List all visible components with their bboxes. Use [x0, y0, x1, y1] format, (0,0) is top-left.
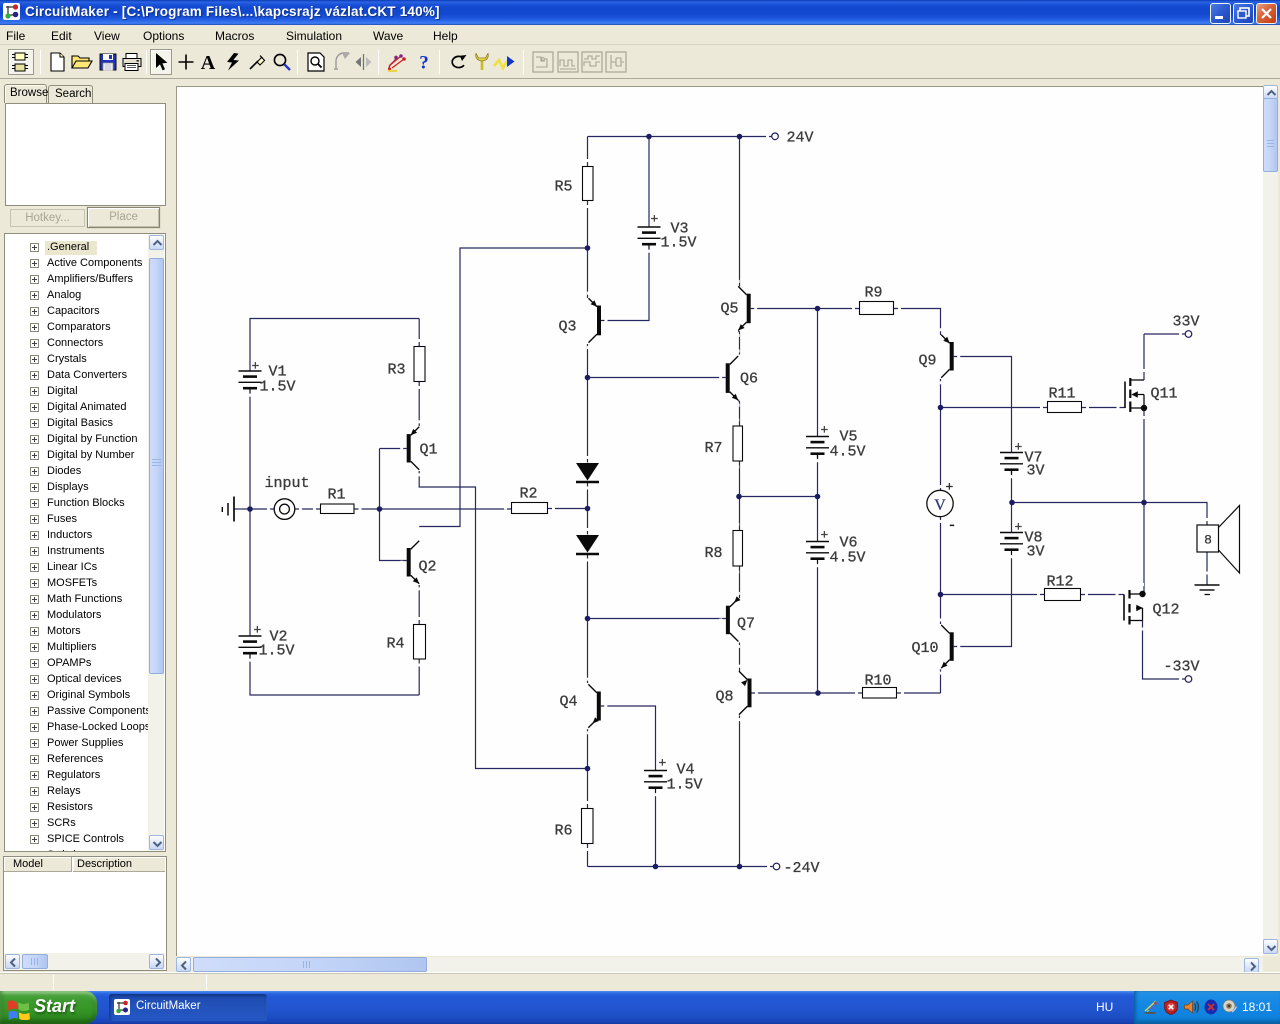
model/description panel [3, 856, 167, 971]
svg-text:+: + [252, 359, 260, 374]
wire R6 bottom lead [587, 844, 589, 867]
junction diode midpoint [585, 506, 591, 512]
wire R4 bottom lead [418, 659, 420, 695]
wire Q6 emitter to R7 [738, 400, 739, 426]
resistor R10 [855, 673, 904, 699]
wire R7 bottom lead [739, 461, 741, 497]
battery V2 [239, 623, 295, 662]
wire feedback to Q2 collector [419, 248, 587, 527]
wire V2 top lead [249, 509, 251, 636]
svg-text:Q3: Q3 [559, 319, 577, 336]
battery V4 [644, 756, 703, 797]
svg-text:R5: R5 [555, 179, 573, 196]
resistor R12 [1037, 574, 1088, 601]
battery V5 [806, 423, 866, 463]
wire V8 top lead [1011, 503, 1013, 533]
wire V4 bottom lead [655, 792, 657, 867]
junction V3 at rail [646, 134, 652, 140]
terminal -33V [1164, 659, 1200, 683]
wire R10 right lead [897, 692, 941, 694]
svg-text:Q12: Q12 [1153, 602, 1180, 619]
wire input junction to R2 [380, 508, 512, 510]
svg-text:Q8: Q8 [716, 689, 734, 706]
junction node A (Q3 collector) [585, 375, 591, 381]
wire node C to R12 [941, 594, 1045, 596]
wire R3 top lead [418, 319, 420, 347]
wire V3 top lead [648, 137, 650, 228]
wire Q4 base to V4 [601, 706, 656, 771]
svg-text:R12: R12 [1047, 574, 1074, 591]
battery V1 [239, 359, 296, 397]
wire Q5 emitter to Q6 [738, 331, 739, 355]
svg-text:-: - [948, 518, 957, 535]
svg-text:V: V [934, 497, 946, 514]
toolbar [0, 46, 1280, 79]
svg-text:R9: R9 [865, 285, 883, 302]
wire 33V lead [1144, 333, 1185, 335]
svg-text:?: ? [419, 53, 429, 73]
ground (speaker) [1195, 585, 1220, 595]
battery V7 [1000, 440, 1045, 480]
junction Q5 column at rail [737, 134, 743, 140]
svg-text:R8: R8 [705, 545, 723, 562]
wire Q5 base to R9 [751, 308, 860, 310]
resistor R3 [388, 339, 426, 389]
svg-text:33V: 33V [1173, 314, 1200, 331]
terminal 24V [766, 130, 814, 147]
junction V5-V6 node [815, 494, 821, 500]
wire node B to R11 [941, 407, 1048, 409]
transistor Q10 [912, 619, 961, 675]
wire V8 to Q10 base [954, 554, 1012, 647]
wire Q5 collector lead [739, 137, 741, 287]
battery V3 [638, 212, 697, 253]
svg-text:3V: 3V [1027, 463, 1045, 480]
svg-text:Q10: Q10 [912, 640, 939, 657]
resistor R7 [705, 419, 743, 469]
wire Q9 emitter to node [940, 379, 942, 408]
wire R11 to Q11 gate [1082, 407, 1126, 409]
svg-text:1.5V: 1.5V [661, 235, 697, 252]
svg-text:R10: R10 [865, 673, 892, 690]
svg-text:A: A [201, 53, 216, 71]
resistor R5 [555, 159, 594, 208]
svg-text:R3: R3 [388, 362, 406, 379]
transistor Q9 [919, 328, 961, 384]
wire speaker ground lead [1206, 552, 1208, 585]
wire V3 to Q3 base [601, 249, 649, 321]
junction speaker node [1141, 500, 1147, 506]
transistor Q3 [559, 292, 608, 349]
transistor Q8 [716, 665, 759, 721]
svg-text:-33V: -33V [1164, 659, 1200, 676]
svg-text:Q4: Q4 [560, 694, 578, 711]
wire Q8 base to R10 [752, 692, 863, 694]
menu bar [0, 25, 1280, 45]
junction ground node [247, 506, 253, 512]
svg-text:Q1: Q1 [420, 442, 438, 459]
speaker SP1 [1197, 506, 1240, 575]
svg-text:R11: R11 [1049, 386, 1076, 403]
wire D1 anode lead [587, 378, 589, 463]
svg-text:+: + [651, 212, 659, 227]
svg-text:R1: R1 [328, 487, 346, 504]
junction V4 at rail [653, 864, 659, 870]
svg-text:Q2: Q2 [419, 559, 437, 576]
wire Q4 collector lead [587, 619, 589, 684]
terminal 33V [1173, 314, 1200, 338]
svg-text:1.5V: 1.5V [260, 379, 296, 396]
wire speaker net [1012, 503, 1208, 526]
diode D2 [576, 528, 599, 562]
resistor R11 [1040, 386, 1089, 413]
svg-text:+: + [254, 623, 262, 638]
wire V2 bottom loop [250, 658, 419, 696]
wire R8 top lead [739, 497, 741, 531]
wire D1 to D2 [587, 483, 589, 535]
voltmeter V [927, 480, 957, 535]
wire Q12 drain to -33V [1143, 621, 1186, 680]
wire Q4 emitter lead [587, 729, 589, 768]
wire Q1 emitter run [419, 471, 587, 769]
svg-text:R7: R7 [705, 440, 723, 457]
transistor Q2 [400, 534, 436, 590]
wire node A to Q6 base [588, 377, 726, 379]
wire Q3 collector lead [587, 344, 589, 378]
wire -24V rail [588, 866, 773, 868]
wire 24V rail [588, 136, 772, 138]
diode D1 [576, 456, 599, 490]
svg-text:Q6: Q6 [740, 371, 758, 388]
wire Q3 emitter lead [587, 248, 589, 298]
wire R9 to Q9 collector [894, 309, 941, 336]
junction Q8 base node [815, 690, 821, 696]
canvas v scrollbar [1263, 85, 1278, 956]
junction Q9-R11 node [938, 405, 944, 411]
tree box [4, 233, 166, 852]
svg-text:4.5V: 4.5V [830, 550, 866, 567]
svg-text:+: + [1015, 520, 1023, 535]
wire speaker node to Q12 source [1143, 503, 1145, 595]
svg-text:-24V: -24V [784, 860, 820, 877]
wire V1 top loop [250, 319, 419, 372]
wire Q1 base wire [380, 449, 407, 510]
wire R5 bottom lead [587, 201, 589, 249]
status bar [0, 972, 1280, 991]
wire V5 to V6 link [817, 454, 819, 542]
wire R5 top lead [587, 137, 589, 167]
preview box [5, 103, 166, 206]
wire R1 to input junction [354, 508, 380, 510]
svg-text:+: + [659, 756, 667, 771]
window title bar [0, 0, 1280, 25]
svg-text:+: + [821, 423, 829, 438]
wire Q2 emitter to R4 [418, 585, 420, 625]
resistor R1 [313, 487, 362, 514]
junction Q10-R12 node [938, 592, 944, 598]
wire Q9 base to V7 [954, 357, 1012, 453]
resistor R9 [852, 285, 901, 315]
junction Q5 base node [815, 306, 821, 312]
wire V1 bottom lead [249, 393, 251, 510]
junction Q7 base node [585, 616, 591, 622]
transistor Q4 [560, 678, 608, 735]
wire Q2 base wire [380, 509, 407, 561]
transistor Q5 [721, 280, 758, 337]
terminal -24V [767, 860, 820, 877]
svg-text:+: + [821, 528, 829, 543]
ground (input) [222, 497, 234, 522]
wire R3 to Q1 collector [418, 382, 420, 426]
transistor Q7 [719, 592, 755, 648]
svg-text:4.5V: 4.5V [830, 444, 866, 461]
svg-text:24V: 24V [787, 130, 814, 147]
svg-text:Q11: Q11 [1151, 386, 1178, 403]
wire V7 bottom lead [1011, 471, 1013, 503]
svg-text:8: 8 [1204, 533, 1212, 548]
tray icons [1143, 999, 1159, 1015]
svg-text:R4: R4 [387, 636, 405, 653]
MOSFET Q11 [1117, 369, 1178, 419]
wire Q10 emitter to R10 wire [940, 669, 942, 693]
svg-text:1.5V: 1.5V [667, 777, 703, 794]
wire Q11 source to speaker node [1143, 408, 1145, 503]
junction R5-feedback node [585, 245, 591, 251]
start button [0, 991, 97, 1024]
model h-scrollbar [4, 953, 165, 970]
svg-text:1.5V: 1.5V [259, 643, 295, 660]
svg-text:Q9: Q9 [919, 353, 937, 370]
resistor R6 [555, 801, 594, 851]
junction input node [377, 506, 383, 512]
svg-text:input: input [265, 475, 310, 492]
wire V5 top lead [817, 309, 819, 437]
left sidebar [0, 80, 171, 972]
MOSFET Q12 [1116, 583, 1180, 631]
taskbar [0, 991, 1280, 1024]
resistor R8 [705, 523, 743, 574]
canvas [171, 80, 1280, 972]
transistor Q6 [719, 350, 758, 407]
canvas h scrollbar [176, 957, 1263, 972]
input connector [265, 475, 310, 519]
wire input node to connector [250, 508, 274, 510]
tabs [4, 84, 47, 103]
battery V8 [1000, 520, 1045, 561]
wire Q8 emitter to rail [739, 716, 741, 867]
junction R7-R8 node [736, 494, 742, 500]
svg-text:3V: 3V [1027, 544, 1045, 561]
wire R6 top lead [587, 769, 589, 809]
svg-text:+: + [946, 480, 954, 495]
svg-text:R2: R2 [520, 486, 538, 503]
hotkey button [10, 209, 85, 227]
junction Q8 column at rail [737, 864, 743, 870]
resistor R4 [387, 617, 426, 667]
wire Q10 collector lead [940, 595, 942, 625]
svg-text:R6: R6 [555, 823, 573, 840]
svg-text:Q5: Q5 [721, 301, 739, 318]
place button [87, 207, 160, 228]
task button [109, 994, 267, 1021]
tray [1134, 991, 1280, 1024]
wire R8 bottom to Q7 collector [739, 566, 741, 598]
wire voltmeter top lead [940, 408, 942, 491]
resistor R2 [504, 486, 555, 514]
svg-text:+: + [1015, 440, 1023, 455]
wire ground to input node [234, 508, 250, 510]
wire D2 cathode lead [587, 555, 589, 619]
junction Q4 emitter node [585, 766, 591, 772]
wire Q7 emitter to Q8 collector [739, 643, 741, 672]
svg-text:Q7: Q7 [737, 616, 755, 633]
battery V6 [806, 528, 866, 568]
wire Q11 drain lead [1143, 334, 1145, 380]
transistor Q1 [400, 420, 437, 476]
wire R7-R8 node to V5-V6 node [739, 496, 818, 498]
wire R12 to Q12 gate [1081, 594, 1125, 596]
wire R2 right lead [548, 508, 588, 510]
wire Q7 base wire [588, 618, 726, 620]
wire connector to R1 [295, 508, 321, 510]
wire V6 bottom lead [817, 563, 819, 693]
junction V7-V8 node [1009, 500, 1015, 506]
wire voltmeter bottom lead [940, 517, 942, 595]
